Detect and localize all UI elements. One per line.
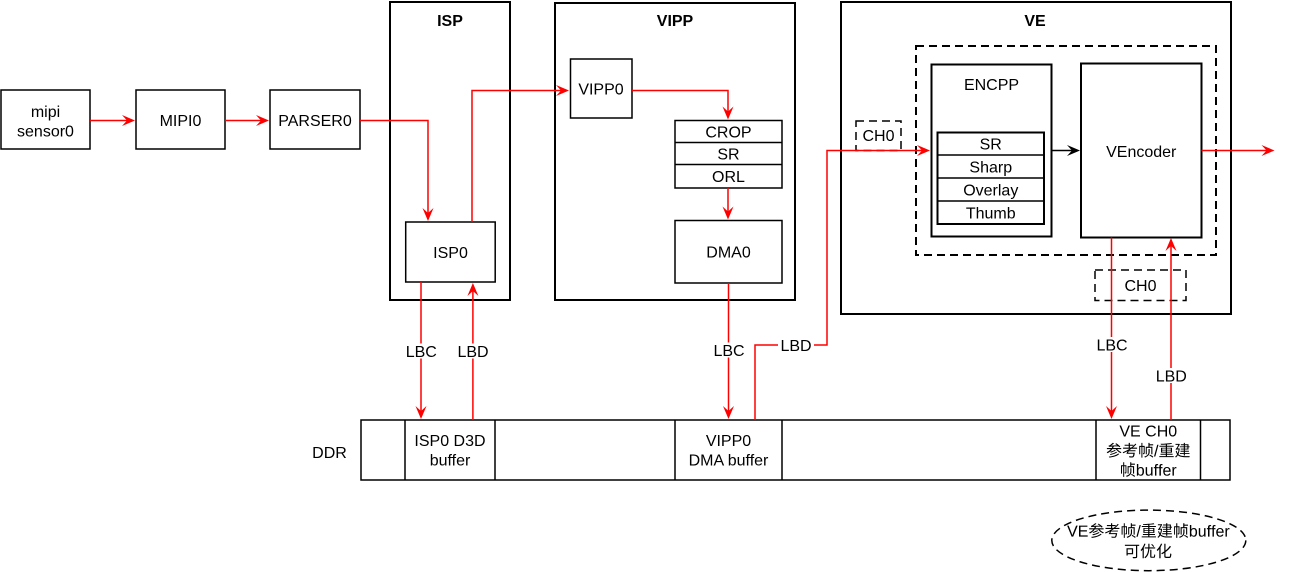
- svg-text:SR: SR: [980, 137, 1002, 154]
- svg-text:Thumb: Thumb: [966, 205, 1016, 222]
- wire LBD DDR to ISP0: [455, 283, 491, 420]
- block MIPI0: [136, 90, 225, 149]
- wire MIPI0 to PARSER0: [225, 115, 269, 126]
- svg-text:VE: VE: [1024, 13, 1046, 30]
- svg-text:LBC: LBC: [713, 343, 744, 360]
- block PARSER0: [270, 90, 360, 149]
- svg-text:MIPI0: MIPI0: [160, 113, 202, 130]
- block CROP/SR/ORL stack: [675, 121, 782, 189]
- svg-text:LBD: LBD: [1156, 368, 1187, 385]
- block VIPP0: [571, 59, 633, 118]
- svg-text:SR: SR: [717, 146, 739, 163]
- svg-text:sensor0: sensor0: [17, 124, 74, 141]
- text: 参考帧/重建 (w=84.4): [1107, 443, 1190, 458]
- svg-text:ISP0 D3D: ISP0 D3D: [414, 433, 485, 450]
- DDR strip: [361, 420, 1230, 480]
- container VE: [841, 2, 1231, 314]
- text: 帧buffer (w=56.9): [1121, 462, 1176, 477]
- svg-text:ENCPP: ENCPP: [964, 77, 1019, 94]
- wire ENCPP to VEncoder (black): [1052, 145, 1081, 156]
- svg-text:DMA0: DMA0: [706, 245, 751, 262]
- wire ISP0 to VIPP0: [472, 85, 569, 222]
- svg-text:CH0: CH0: [862, 128, 894, 145]
- svg-text:ORL: ORL: [712, 169, 745, 186]
- svg-text:Overlay: Overlay: [963, 182, 1018, 199]
- svg-text:VEncoder: VEncoder: [1106, 144, 1177, 161]
- block ISP0: [406, 222, 496, 282]
- svg-text:Sharp: Sharp: [969, 159, 1012, 176]
- svg-text:mipi: mipi: [31, 104, 60, 121]
- svg-text:DMA buffer: DMA buffer: [689, 453, 769, 470]
- text: 可优化 (w=48.0): [1125, 544, 1172, 559]
- wire mipi sensor0 to MIPI0: [90, 115, 135, 126]
- dashed node CH0 (VEncoder bottom): [1095, 270, 1186, 301]
- svg-text:CROP: CROP: [705, 124, 751, 141]
- block ENCPP: [932, 65, 1052, 237]
- svg-text:LBC: LBC: [1096, 337, 1127, 354]
- cell ISP0 D3D buffer: [414, 433, 485, 470]
- block mipi sensor0: [1, 90, 90, 149]
- cell VIPP0 DMA buffer: [689, 433, 769, 470]
- dashed node CH0 (VE input): [856, 121, 901, 151]
- svg-text:VIPP0: VIPP0: [578, 81, 623, 98]
- svg-text:VIPP0: VIPP0: [706, 433, 751, 450]
- wire VEncoder output: [1202, 145, 1275, 156]
- container ISP: [390, 2, 510, 300]
- dashed inner VE container: [916, 46, 1216, 255]
- wire PARSER0 to ISP0: [360, 121, 434, 222]
- svg-text:VIPP: VIPP: [657, 13, 694, 30]
- svg-text:VE CH0: VE CH0: [1119, 423, 1177, 440]
- text: VE参考帧/重建帧buffer (w=162.7): [1067, 523, 1229, 538]
- svg-text:ISP: ISP: [437, 13, 463, 30]
- svg-text:LBC: LBC: [406, 344, 437, 361]
- svg-text:LBD: LBD: [780, 338, 811, 355]
- wire LBD DDR to VEncoder: [1153, 238, 1189, 420]
- wire LBC ISP0 to DDR: [404, 282, 439, 419]
- wire LBC DMA0 to DDR: [711, 283, 746, 419]
- svg-text:PARSER0: PARSER0: [278, 113, 352, 130]
- dashed ellipse note: [1052, 510, 1246, 571]
- svg-text:CH0: CH0: [1124, 278, 1156, 295]
- container VIPP: [555, 3, 795, 300]
- svg-text:buffer: buffer: [430, 453, 471, 470]
- block DMA0: [675, 221, 782, 284]
- svg-text:LBD: LBD: [457, 344, 488, 361]
- svg-text:DDR: DDR: [312, 445, 347, 462]
- wire ORL to DMA0: [723, 188, 734, 220]
- block SR/Sharp/Overlay/Thumb stack: [938, 133, 1045, 225]
- wire LBC VEncoder to DDR: [1095, 238, 1130, 420]
- svg-text:ISP0: ISP0: [433, 245, 468, 262]
- block VEncoder: [1081, 64, 1202, 238]
- wire LBD DDR to VE CH0 input: [755, 145, 930, 420]
- wire VIPP0 to CROP: [632, 91, 734, 120]
